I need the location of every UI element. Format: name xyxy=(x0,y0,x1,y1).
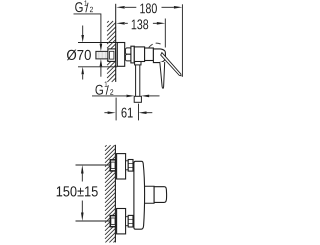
arrow pointing right at outlet collar left edge xyxy=(126,95,134,98)
wire leader underline of top G1/2 xyxy=(74,14,101,44)
union nut (bottom) xyxy=(128,215,133,227)
wire outlet axis extension for 61 dim xyxy=(138,104,140,121)
dim text 150±15 xyxy=(57,186,98,196)
outlet collar (hose union) xyxy=(134,96,141,102)
dim text Ø70 xyxy=(67,50,91,61)
shower outlet pipe below body xyxy=(135,65,137,96)
S-union upper ring xyxy=(125,48,131,54)
arrow pointing left at outlet collar right edge xyxy=(141,95,149,98)
wall hatching (lower view) xyxy=(105,145,115,242)
wire dim extension: wall surface extension line (top view) xyxy=(115,4,117,21)
dashed swing arc over lever hub xyxy=(149,43,161,47)
wire 150 dim boundary line (bottom union axis) xyxy=(76,220,111,222)
mixer body block (side view) xyxy=(134,47,144,62)
arrow leader pointing down at nipple top xyxy=(100,44,103,52)
dimension 180 line with arrows xyxy=(125,6,136,8)
wire dim extension line at body front x=165.3 for 138 dim xyxy=(164,19,166,48)
wire 150 dim boundary line (top union axis) xyxy=(76,164,111,166)
label G 1/2 (top inlet) xyxy=(75,2,82,12)
arrow Ø70 lower (up) xyxy=(81,67,84,75)
dim text 138 xyxy=(132,19,149,29)
union nut (top) xyxy=(128,160,133,172)
dim Ø70: boundary lines xyxy=(78,42,117,44)
union nut (tall narrow) xyxy=(131,46,134,63)
wire wall extension segment for 61 xyxy=(115,98,117,121)
S-union lower ring xyxy=(125,54,131,61)
arrow Ø70 upper (down) xyxy=(82,26,84,36)
dimension 138 line with arrows xyxy=(125,22,128,24)
lever blade (diagonal) xyxy=(161,53,181,76)
wire dim extension line at lever tip x=182.4 for 180 dim xyxy=(181,4,183,77)
cartridge neck (lower view) xyxy=(144,186,154,203)
S-union cylinder (bottom) xyxy=(126,217,129,226)
S-union cylinder (top) xyxy=(126,161,129,170)
arrow counter-arrow pointing up at nipple bottom xyxy=(100,59,103,67)
dim text 61 xyxy=(122,108,133,118)
neck between body and cartridge xyxy=(145,48,154,61)
threaded nipple behind wall xyxy=(96,51,109,59)
outlet connection nut below body xyxy=(135,62,141,65)
escutcheon flange Ø70 (side view) xyxy=(117,43,124,67)
cartridge cap (lower view) xyxy=(154,187,167,203)
hex nut behind wall (top union) xyxy=(110,160,115,171)
wall hatching (side view) xyxy=(107,21,116,82)
wall line (side view) xyxy=(115,21,117,82)
escutcheon flange (top union) xyxy=(117,154,126,179)
lever paddle (hangs down) xyxy=(160,62,165,88)
mixer body (lower view, barrel outline) xyxy=(134,161,145,229)
hex nut behind wall (bottom union) xyxy=(110,216,115,227)
label G 1/2 (shower outlet) xyxy=(96,85,103,95)
escutcheon flange (bottom union) xyxy=(117,209,126,234)
dim text 180 xyxy=(140,3,157,13)
wire underline leader of outlet G1/2 xyxy=(92,95,126,97)
dimension 150±15 vertical line + arrows xyxy=(81,165,84,174)
wall line (lower view) xyxy=(114,145,116,243)
cartridge hub and front cap xyxy=(153,49,165,63)
square nut in wall xyxy=(108,49,116,62)
